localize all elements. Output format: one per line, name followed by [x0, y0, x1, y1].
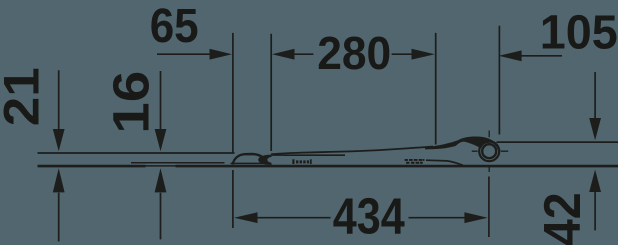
svg-text:42: 42: [534, 192, 592, 245]
svg-text:65: 65: [150, 0, 199, 53]
svg-text:434: 434: [333, 188, 406, 245]
svg-text:16: 16: [103, 71, 160, 134]
svg-text:105: 105: [540, 5, 618, 59]
svg-text:21: 21: [0, 67, 50, 126]
svg-text:280: 280: [317, 27, 391, 79]
